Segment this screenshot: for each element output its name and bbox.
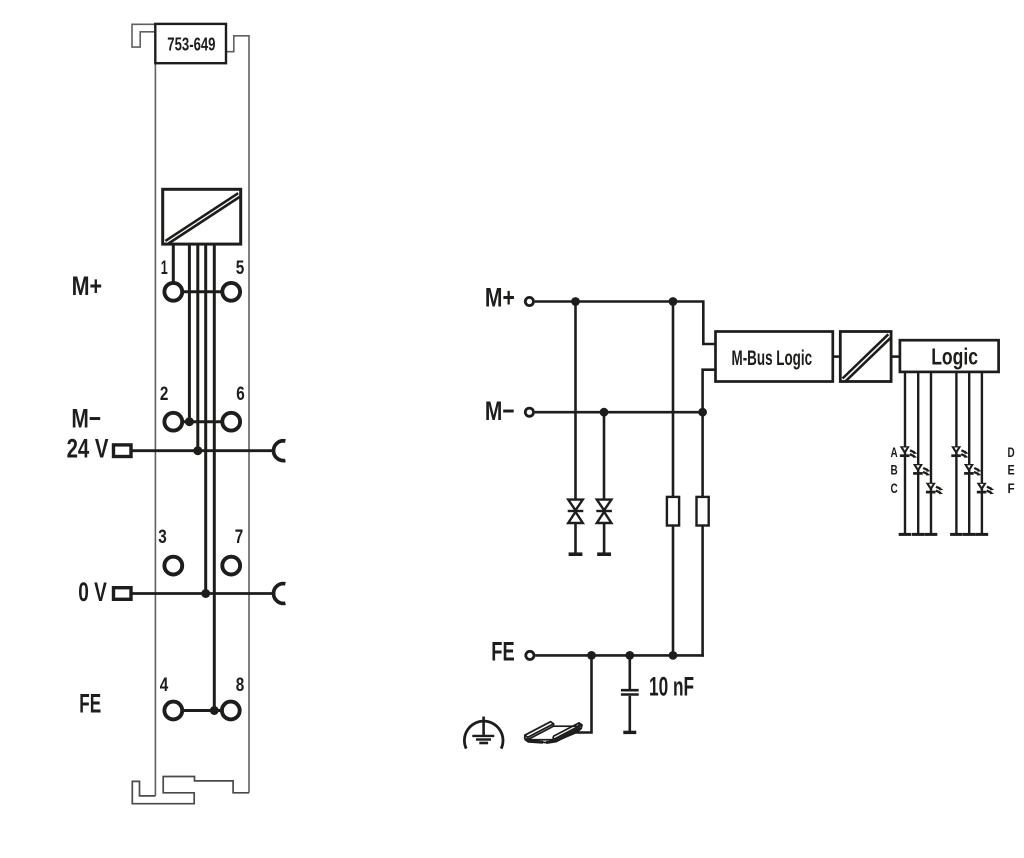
DC/DC converter U1 (box with diagonal) inside module [163,189,241,244]
wire M- rail [535,411,703,414]
LED driver wire 3 termination bar [925,533,938,536]
DIN rail symbol (isometric carrier rail) [525,722,582,743]
LED driver wire 3 from Logic block [930,372,932,533]
node M- open terminal circle [525,408,533,416]
terminal 4 contact circle [164,702,182,720]
LED A [900,446,918,458]
wire FE down to DIN rail [576,655,592,732]
LED driver wire 5 termination bar [963,533,976,536]
24V supply connector tab [114,445,132,457]
LED driver wire 4 from Logic block [955,372,957,533]
0V supply connector tab [114,588,132,600]
svg-text:7: 7 [235,527,244,548]
suppressor diode D2 (bidirectional TVS) [596,500,612,555]
svg-text:E: E [1008,461,1015,477]
0V pass-through contact arc [274,584,286,604]
M-Bus Logic block U2 [716,332,833,382]
label box 753-649 [155,24,226,63]
svg-text:FE: FE [491,637,514,667]
terminal 3 contact circle [164,557,182,575]
terminal 8 contact circle [222,702,240,720]
LED D [951,446,969,458]
capacitor C1 plates [621,689,639,692]
wire M+ down to suppressor diode D1 [574,302,577,500]
junction dot terminal 4-8 wire [210,706,219,715]
terminal 5 contact circle [222,283,240,301]
svg-text:10 nF: 10 nF [649,672,694,702]
LED driver wire 6 termination bar [976,533,989,536]
module bottom mounting foot [132,777,249,804]
svg-text:M−: M− [485,396,515,426]
LED E [964,464,982,476]
resistor R1 [667,497,679,526]
LED driver wire 2 from Logic block [917,372,919,533]
24V power rail wire [131,449,275,452]
svg-text:753-649: 753-649 [167,34,215,55]
svg-text:M-Bus Logic: M-Bus Logic [732,347,813,370]
wire isolator to Logic block [891,355,900,358]
wire terminal 1 to terminal 5 [183,290,222,293]
svg-text:2: 2 [160,384,169,405]
junction dot M+ / diode branch [571,297,580,306]
junction dot FE / capacitor branch [625,651,634,660]
junction dot terminal 2 wire [185,417,194,426]
svg-text:0 V: 0 V [78,577,107,607]
svg-text:5: 5 [236,258,245,279]
capacitor C1 top lead [628,655,631,689]
svg-text:4: 4 [160,675,169,696]
capacitor C1 termination bar [623,731,636,734]
node FE open terminal circle [526,651,534,659]
wire resistor R1 down to FE rail [672,526,675,656]
junction dot FE / resistor R1 branch [669,651,678,660]
wire from converter to 24V junction [196,244,199,451]
LED driver wire 1 termination bar [899,533,912,536]
svg-text:24 V: 24 V [67,434,109,464]
wire terminal 4 to terminal 8 [183,709,221,712]
svg-text:8: 8 [236,675,245,696]
junction dot M- / resistor branch [698,408,707,417]
LED driver wire 6 from Logic block [981,372,983,533]
svg-text:M+: M+ [485,282,515,312]
wire from converter to 0V junction [204,244,207,593]
wire FE rail [535,654,704,657]
svg-text:M+: M+ [72,271,103,301]
wire M+ down to resistor R1 [672,302,675,497]
terminal 2 contact circle [164,413,182,431]
junction dot 24V wire [193,446,202,455]
svg-text:6: 6 [236,384,245,405]
wire M+ rail to M-Bus Logic upper pin [535,302,716,345]
svg-text:F: F [1008,480,1016,496]
0V power rail wire [131,592,275,595]
24V pass-through contact arc [274,441,286,461]
wire from converter to terminal 1 [172,244,175,283]
galvanic isolator U3 (box with diagonal) [840,332,891,382]
wire terminal 2 to terminal 6 [183,420,222,423]
junction dot M- / diode branch [600,408,609,417]
LED driver wire 5 from Logic block [968,372,970,533]
LED driver wire 2 termination bar [912,533,925,536]
LED driver wire 4 termination bar [950,533,963,536]
junction dot M+ / resistor branch [669,297,678,306]
wire resistor R2 down to FE rail corner [701,526,704,657]
module outline (753-649 bus terminal body) [132,24,249,796]
wire M-Bus Logic to isolator [833,355,841,358]
svg-text:1: 1 [161,258,168,279]
junction dot FE / ground branch [587,651,596,660]
wire from converter to FE terminal junction [213,244,216,710]
svg-text:B: B [891,461,898,477]
LED driver wire 1 from Logic block [904,372,906,533]
suppressor diode D1 (bidirectional TVS) [568,500,584,555]
svg-text:A: A [891,444,898,460]
svg-text:M−: M− [71,404,101,434]
capacitor C1 bottom lead [628,696,631,731]
svg-text:C: C [891,480,898,496]
resistor R2 [697,497,709,526]
wire from converter to terminal 2 junction [188,244,191,422]
Logic block U4 [900,340,999,372]
protective earth ground symbol [464,717,503,749]
LED F [977,483,995,495]
svg-text:3: 3 [158,527,167,548]
svg-text:Logic: Logic [931,343,978,369]
svg-text:FE: FE [79,689,101,719]
wire M-Bus Logic lower pin down to resistor R2 [703,370,716,497]
terminal 6 contact circle [222,413,240,431]
LED B [913,464,931,476]
terminal 7 contact circle [222,557,240,575]
node M+ open terminal circle [525,297,533,305]
svg-text:D: D [1008,444,1015,460]
junction dot 0V wire [201,589,210,598]
LED C [926,483,944,495]
terminal 1 contact circle [164,283,182,301]
wire M- down to suppressor diode D2 [603,412,606,499]
